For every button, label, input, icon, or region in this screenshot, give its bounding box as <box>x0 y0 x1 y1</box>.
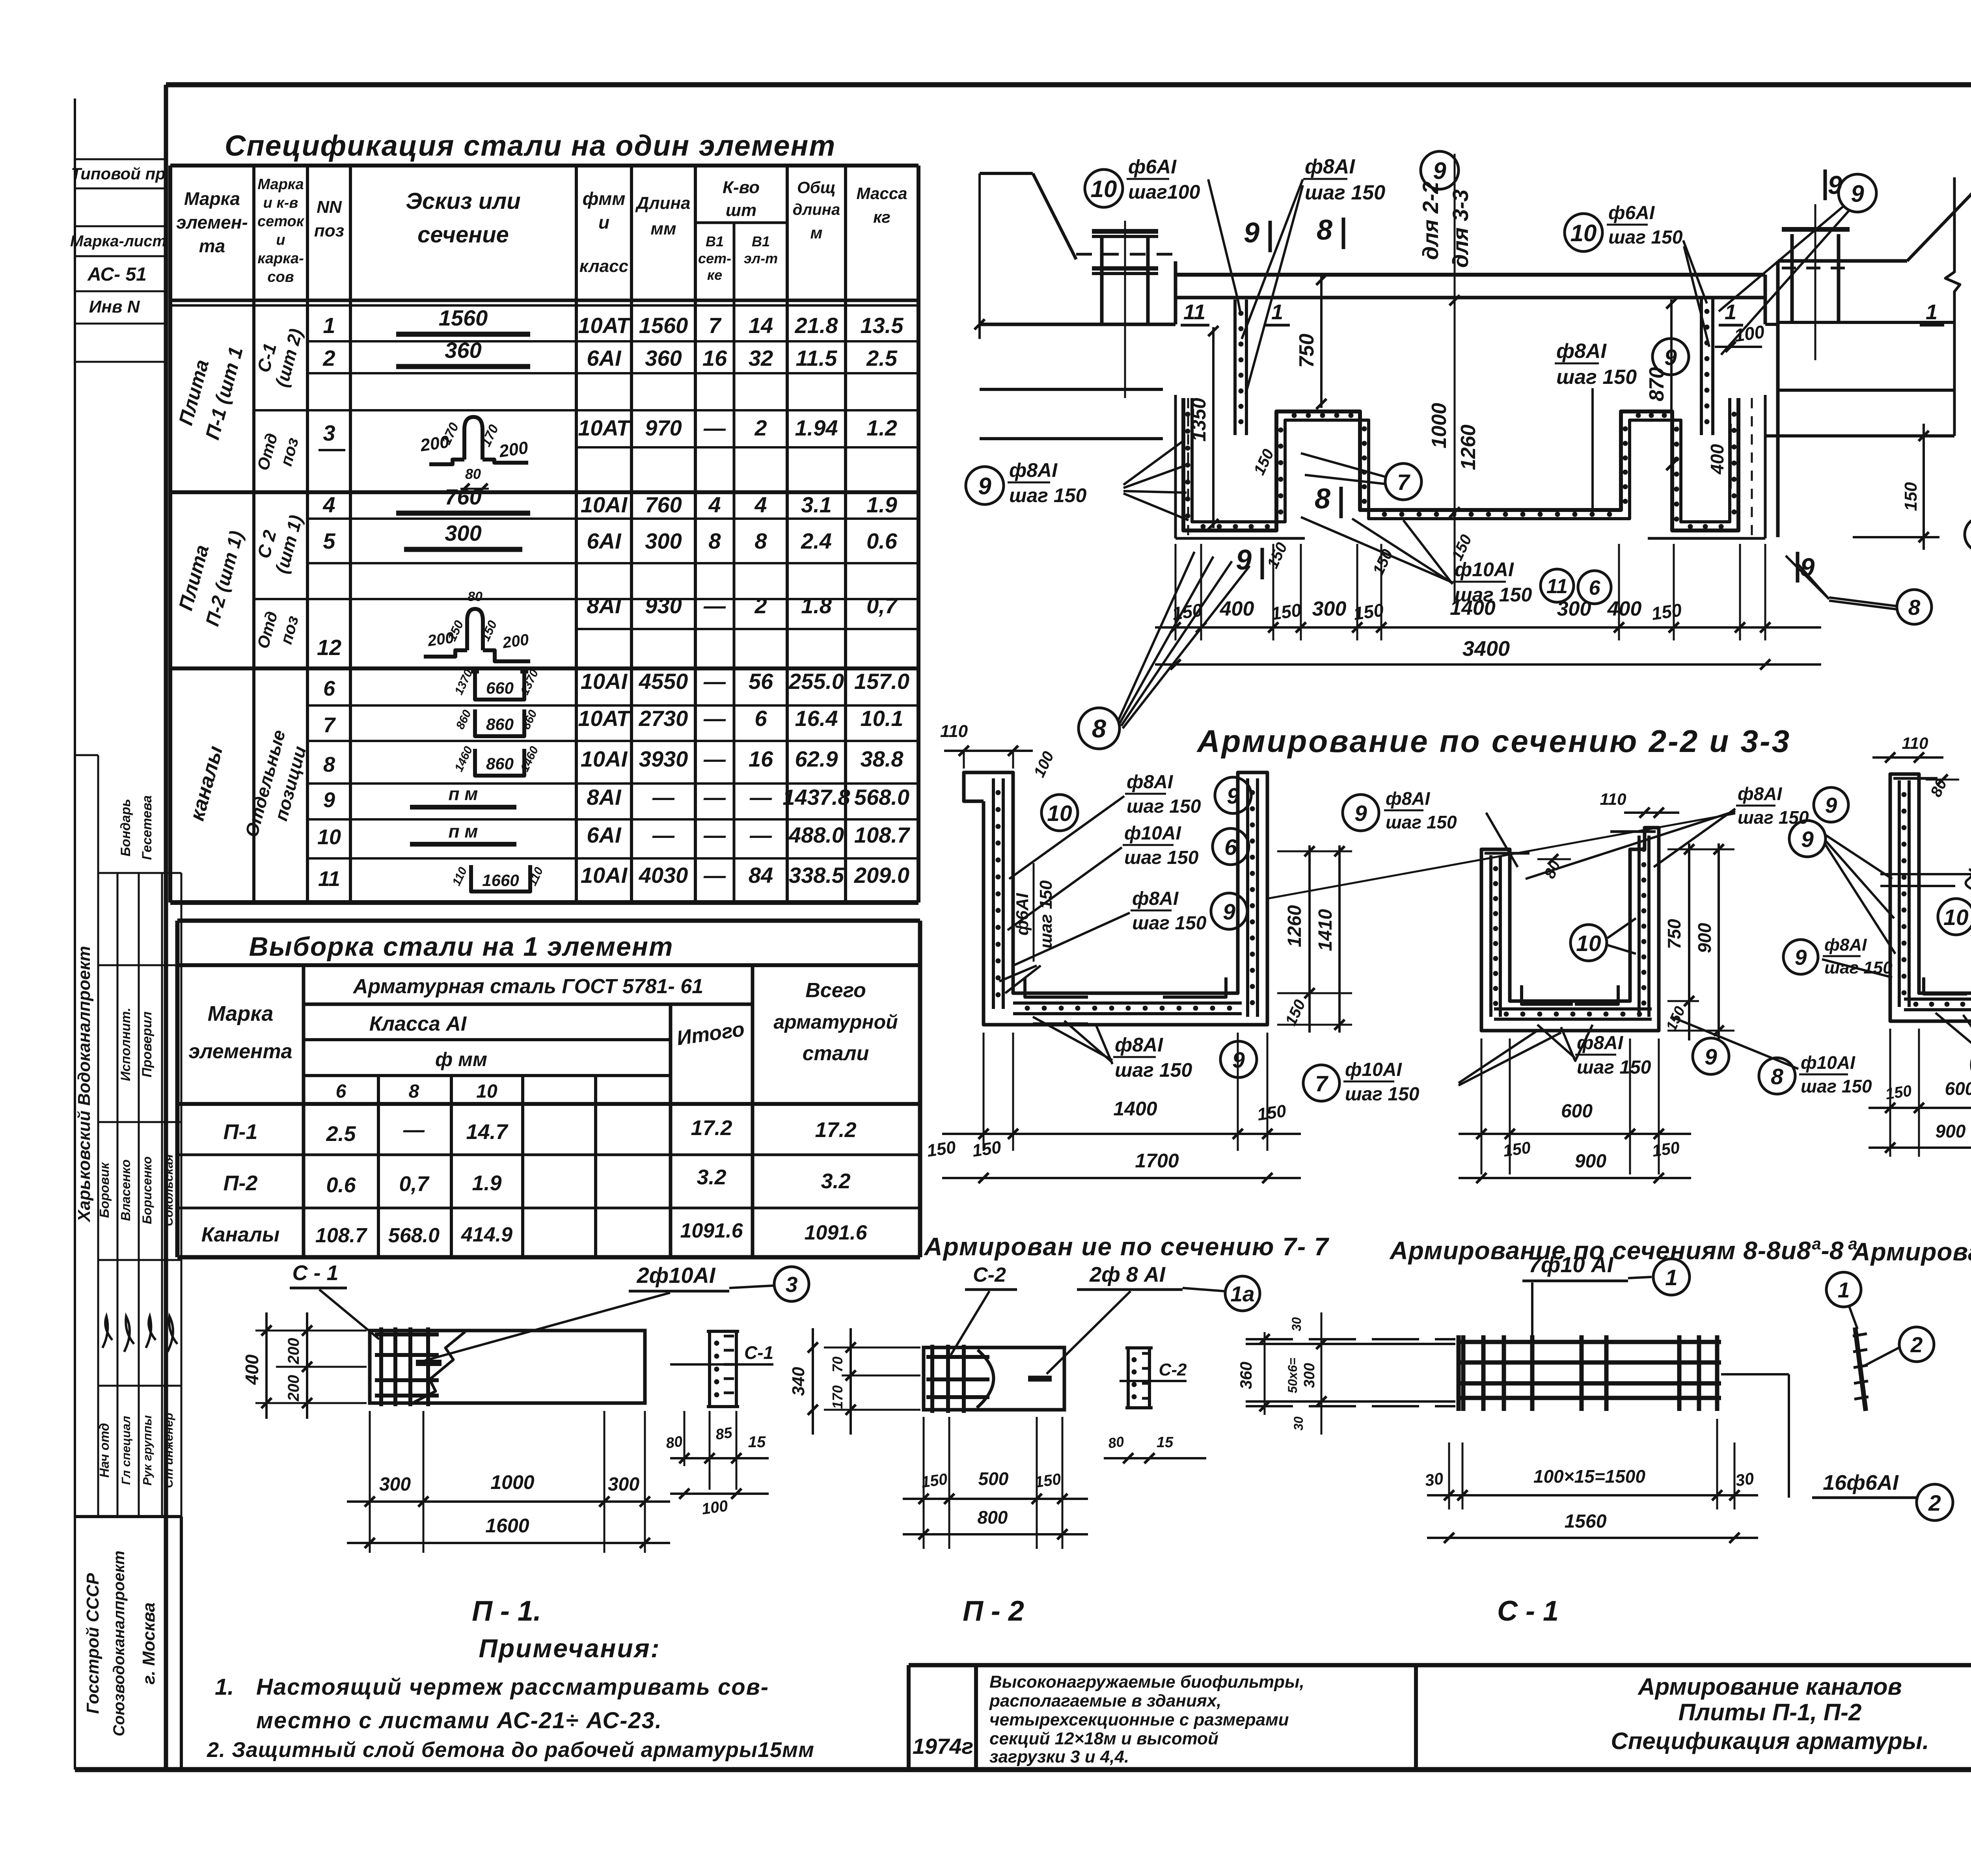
svg-text:10АТ: 10АТ <box>578 415 632 440</box>
svg-text:шаг 150: шаг 150 <box>1115 1059 1192 1081</box>
svg-text:Нач отд: Нач отд <box>97 1423 112 1478</box>
П-2 dims bottom <box>923 1417 925 1549</box>
svg-text:Спецификация арматуры.: Спецификация арматуры. <box>1611 1728 1929 1754</box>
svg-text:1410: 1410 <box>1315 909 1336 951</box>
svg-text:ф мм: ф мм <box>435 1048 487 1070</box>
svg-text:1.94: 1.94 <box>795 415 838 440</box>
svg-text:150: 150 <box>926 1137 957 1161</box>
П-1 dims left 400 200 200 <box>255 1330 367 1332</box>
svg-text:ф10АI: ф10АI <box>1801 1052 1855 1073</box>
svg-text:карка-: карка- <box>257 250 304 267</box>
top drawing: left wall hatch <box>1187 398 1189 536</box>
svg-text:3: 3 <box>786 1272 798 1297</box>
svg-text:Бондарь: Бондарь <box>118 799 133 856</box>
drawing 9-9 slab level lines with break <box>1880 873 1971 875</box>
drawing 8-8 outline <box>1481 828 1659 1031</box>
table 2 grid <box>302 965 306 1257</box>
svg-text:150: 150 <box>920 1470 948 1491</box>
svg-text:шаг 150: шаг 150 <box>1036 880 1056 948</box>
svg-text:а: а <box>1812 1234 1821 1253</box>
svg-text:10: 10 <box>476 1081 497 1102</box>
svg-text:1350: 1350 <box>1188 398 1210 441</box>
svg-text:150: 150 <box>1901 482 1921 511</box>
svg-text:300: 300 <box>379 1474 411 1495</box>
svg-text:414.9: 414.9 <box>461 1223 512 1246</box>
svg-text:ф6АI: ф6АI <box>1608 203 1655 223</box>
drawing 8-8 corner L-bars <box>1522 985 1573 1004</box>
svg-text:10АІ: 10АІ <box>581 746 628 771</box>
drawing 8-8 label 8 ф10АI bottom right <box>1759 1058 1795 1094</box>
svg-text:Класса АІ: Класса АІ <box>369 1012 467 1035</box>
bottom stamp box Госстрой СССР <box>75 1515 181 1518</box>
С-1 extension lines left <box>1246 1338 1455 1340</box>
svg-text:15: 15 <box>1157 1434 1174 1451</box>
drawing 7-7 corner L-bars <box>1025 977 1088 997</box>
svg-text:9: 9 <box>978 473 991 499</box>
svg-text:-8: -8 <box>1821 1236 1844 1265</box>
svg-text:870: 870 <box>1645 367 1668 402</box>
svg-text:255.0: 255.0 <box>788 669 844 694</box>
svg-text:8АІ: 8АІ <box>587 785 622 810</box>
П-1 mesh jag cut <box>414 1332 465 1402</box>
svg-text:шаг 150: шаг 150 <box>1345 1084 1420 1105</box>
svg-text:1.8: 1.8 <box>801 593 832 618</box>
svg-text:1: 1 <box>1926 300 1937 324</box>
svg-text:11: 11 <box>318 867 340 891</box>
svg-text:110: 110 <box>1600 790 1626 808</box>
svg-text:400: 400 <box>242 1354 262 1385</box>
svg-text:56: 56 <box>749 669 773 694</box>
top drawing: left break diagonal <box>980 172 1033 175</box>
svg-text:11: 11 <box>1546 575 1568 598</box>
svg-text:ф8АI: ф8АI <box>1305 155 1355 178</box>
svg-text:9: 9 <box>1851 181 1864 207</box>
svg-text:200: 200 <box>501 631 530 652</box>
svg-text:1.9: 1.9 <box>866 492 897 517</box>
svg-text:местно с листами АС-21÷ АС-: местно с листами АС-21÷ АС-23. <box>256 1708 662 1733</box>
svg-text:300: 300 <box>1301 1363 1318 1388</box>
svg-text:6: 6 <box>336 1081 347 1102</box>
left column stamp rows <box>75 158 166 160</box>
svg-text:10АІ: 10АІ <box>581 863 628 888</box>
svg-text:13.5: 13.5 <box>861 313 904 338</box>
svg-text:760: 760 <box>645 492 682 517</box>
drawing 8-8 label 10 circle <box>1570 925 1607 961</box>
svg-text:—: — <box>703 706 726 731</box>
svg-text:—: — <box>749 785 772 810</box>
top drawing: main slab bottom line <box>1176 296 1765 300</box>
top drawing: stepped channel mesh inner line <box>1192 398 1730 522</box>
svg-text:1560: 1560 <box>1565 1511 1607 1532</box>
svg-text:200: 200 <box>285 1338 302 1365</box>
svg-text:ф8АI: ф8АI <box>1738 784 1783 804</box>
svg-text:шаг 150: шаг 150 <box>1132 913 1207 934</box>
svg-text:660: 660 <box>486 679 514 697</box>
svg-text:NN: NN <box>317 197 342 217</box>
svg-text:ф8АI: ф8АI <box>1556 340 1607 363</box>
svg-text:1600: 1600 <box>485 1515 529 1537</box>
svg-text:Власенко: Власенко <box>118 1159 133 1221</box>
svg-text:9: 9 <box>1795 945 1807 970</box>
svg-text:150: 150 <box>1270 599 1303 624</box>
С-1 side piece with circles 1 2 <box>1855 1327 1866 1411</box>
svg-text:ф8АI: ф8АI <box>1132 888 1179 909</box>
П-1 beam outline <box>370 1331 645 1403</box>
svg-text:170: 170 <box>829 1385 846 1409</box>
svg-text:шаг 150: шаг 150 <box>1556 366 1637 389</box>
svg-text:200: 200 <box>285 1375 302 1402</box>
svg-text:Эскиз или: Эскиз или <box>406 188 520 214</box>
svg-text:300: 300 <box>1557 597 1591 620</box>
svg-text:—: — <box>749 823 772 847</box>
top drawing: bottom dim line row 1 <box>1155 626 1821 629</box>
drawing 7-7 dim 110 top <box>963 751 965 769</box>
table 1 sub column К-во шт <box>733 223 736 903</box>
drawing 9-9 outline <box>1890 774 1971 1021</box>
svg-text:9: 9 <box>1227 784 1239 809</box>
svg-text:900: 900 <box>1936 1121 1966 1141</box>
svg-text:кг: кг <box>873 208 890 226</box>
svg-text:500: 500 <box>978 1468 1009 1489</box>
svg-text:Типовой пр: Типовой пр <box>71 164 166 183</box>
П-1 anchor dash <box>416 1360 442 1366</box>
svg-text:9: 9 <box>1828 170 1842 199</box>
svg-text:400: 400 <box>1607 597 1642 620</box>
П-2 anchor dash <box>1028 1376 1052 1382</box>
svg-text:Плиты П-1, П-2: Плиты П-1, П-2 <box>1679 1699 1862 1725</box>
svg-text:10: 10 <box>1570 220 1597 246</box>
svg-text:4030: 4030 <box>639 863 688 888</box>
С-1 dims bottom <box>1448 1442 1450 1509</box>
svg-text:8: 8 <box>708 529 721 553</box>
svg-text:арматурной: арматурной <box>773 1011 898 1033</box>
svg-text:10АТ: 10АТ <box>578 706 632 731</box>
drawing 9-9 top hooks <box>1893 777 1937 780</box>
svg-text:0.6: 0.6 <box>866 529 898 553</box>
svg-text:Борисенко: Борисенко <box>140 1156 154 1224</box>
svg-text:200: 200 <box>497 438 529 461</box>
svg-text:6: 6 <box>323 677 335 700</box>
П-1 section piece dims <box>684 1411 686 1466</box>
svg-text:П - 1.: П - 1. <box>472 1595 541 1627</box>
svg-text:1437.8: 1437.8 <box>782 785 850 810</box>
svg-text:9: 9 <box>1354 801 1367 826</box>
svg-text:10.1: 10.1 <box>861 706 904 731</box>
table 1 outer border <box>170 164 918 167</box>
svg-text:П-1: П-1 <box>224 1120 258 1144</box>
svg-text:Харьковский Водоканалпроект: Харьковский Водоканалпроект <box>75 946 94 1223</box>
svg-text:15: 15 <box>748 1433 766 1451</box>
svg-text:1: 1 <box>323 313 335 338</box>
svg-text:16ф6АI: 16ф6АI <box>1823 1471 1899 1494</box>
svg-text:ф8АI: ф8АI <box>1127 772 1174 793</box>
С-1 mesh grid <box>1457 1340 1721 1344</box>
drawing 8-8 mesh bottom <box>1494 1007 1652 1011</box>
svg-text:Арматурная сталь ГОСТ 5781- 6: Арматурная сталь ГОСТ 5781- 61 <box>352 975 703 998</box>
svg-text:2ф 8 АI: 2ф 8 АI <box>1089 1263 1166 1286</box>
svg-text:1560: 1560 <box>639 313 688 338</box>
svg-text:2.4: 2.4 <box>801 529 832 553</box>
svg-text:360: 360 <box>445 338 481 363</box>
svg-text:и: и <box>276 232 285 248</box>
svg-text:80: 80 <box>665 1433 684 1452</box>
svg-text:338.5: 338.5 <box>789 863 844 888</box>
svg-text:Инв N: Инв N <box>89 297 140 316</box>
svg-text:70: 70 <box>829 1357 846 1372</box>
svg-text:6: 6 <box>1224 835 1237 860</box>
svg-text:Общ: Общ <box>797 178 836 197</box>
svg-text:мм: мм <box>650 219 676 238</box>
svg-text:П - 2: П - 2 <box>963 1595 1024 1627</box>
svg-text:Гесетева: Гесетева <box>140 795 155 860</box>
drawing 8-8 top hooks <box>1485 852 1529 855</box>
svg-text:10АІ: 10АІ <box>581 492 628 517</box>
svg-text:эл-т: эл-т <box>744 250 778 266</box>
svg-text:ф8АI: ф8АI <box>1115 1034 1163 1056</box>
svg-text:32: 32 <box>749 346 773 370</box>
svg-text:Высоконагружаемые биофильтры,: Высоконагружаемые биофильтры, <box>989 1672 1304 1692</box>
svg-text:7: 7 <box>708 313 722 338</box>
svg-text:16: 16 <box>749 746 773 771</box>
table 1 column lines <box>252 166 255 903</box>
svg-text:3400: 3400 <box>1462 637 1510 661</box>
drawing 7-7 dims right 1260 1410 <box>1277 851 1352 852</box>
svg-text:6: 6 <box>1589 577 1601 599</box>
drawing 7-7 mesh right wall <box>1246 778 1249 1017</box>
svg-text:7: 7 <box>1397 470 1410 495</box>
svg-text:11: 11 <box>1183 300 1205 324</box>
svg-text:340: 340 <box>789 1367 808 1396</box>
title block outline <box>909 1663 1971 1668</box>
svg-text:6: 6 <box>754 706 767 731</box>
svg-text:38.8: 38.8 <box>861 746 904 771</box>
drawing 9-9 dim 110 80 <box>1872 756 1943 759</box>
svg-text:загрузки 3 и 4,4.: загрузки 3 и 4,4. <box>989 1747 1129 1766</box>
svg-text:Союзводоканалпроект: Союзводоканалпроект <box>110 1550 128 1736</box>
svg-text:3930: 3930 <box>639 746 688 771</box>
svg-text:Сокольская: Сокольская <box>162 1154 175 1226</box>
svg-text:В1: В1 <box>752 233 770 249</box>
svg-text:150: 150 <box>1502 1138 1532 1160</box>
svg-text:930: 930 <box>645 593 682 618</box>
svg-text:750: 750 <box>1295 334 1318 368</box>
svg-text:300: 300 <box>445 521 481 545</box>
svg-text:2: 2 <box>322 346 335 370</box>
label 7 circle <box>1385 463 1421 500</box>
label 10 ф6АI шаг150 top right <box>1565 214 1602 251</box>
svg-text:50х6=: 50х6= <box>1285 1358 1300 1393</box>
svg-text:12: 12 <box>317 635 341 660</box>
svg-text:1: 1 <box>1838 1278 1850 1302</box>
svg-text:3.1: 3.1 <box>801 492 832 517</box>
svg-text:С-1: С-1 <box>744 1342 773 1363</box>
svg-text:В1: В1 <box>706 233 724 249</box>
svg-text:10: 10 <box>1047 801 1072 826</box>
svg-text:11.5: 11.5 <box>796 346 838 370</box>
top drawing: main slab top line <box>1176 273 1765 277</box>
svg-text:элемента: элемента <box>188 1040 292 1063</box>
svg-text:1а: 1а <box>1230 1282 1254 1306</box>
svg-text:С-2: С-2 <box>973 1264 1006 1286</box>
label 8 bottom left <box>1079 708 1120 749</box>
svg-text:30: 30 <box>1291 1416 1306 1431</box>
svg-text:сов: сов <box>267 269 294 285</box>
svg-text:860: 860 <box>486 715 514 733</box>
svg-text:8: 8 <box>323 753 335 776</box>
svg-text:1400: 1400 <box>1450 597 1496 620</box>
svg-text:С-2: С-2 <box>1159 1360 1187 1379</box>
svg-text:1400: 1400 <box>1113 1098 1157 1120</box>
svg-text:Армирован ие по сечению 7- 7: Армирован ие по сечению 7- 7 <box>923 1232 1329 1261</box>
top drawing: right pipe with flanges <box>1790 234 1794 322</box>
svg-text:9: 9 <box>1433 158 1446 184</box>
svg-text:1260: 1260 <box>1457 424 1480 470</box>
drawing 7-7 outline <box>964 772 1267 1025</box>
drawing 9-9 mesh bottom <box>1904 998 1971 1001</box>
svg-text:860: 860 <box>486 754 514 773</box>
drawing 8-8 dims right 750 900 <box>1667 849 1734 851</box>
svg-text:Марка-лист: Марка-лист <box>70 233 166 250</box>
svg-text:84: 84 <box>749 863 773 888</box>
П-1 mesh grid <box>379 1327 383 1406</box>
svg-text:9: 9 <box>323 788 335 812</box>
top drawing: mesh dots along channel <box>1185 412 1190 417</box>
top drawing: vertical dims 750 1350 1000 1260 870 <box>1320 275 1323 408</box>
svg-text:ке: ке <box>707 267 722 283</box>
drawing 9-9 label 10 circle <box>1938 899 1971 935</box>
svg-text:360: 360 <box>645 346 682 370</box>
svg-text:Выборка стали на 1 элемент: Выборка стали на 1 элемент <box>249 932 674 962</box>
top drawing: left pipe with flanges <box>1100 236 1104 324</box>
svg-text:АС- 51: АС- 51 <box>87 264 147 285</box>
svg-text:стали: стали <box>803 1042 869 1065</box>
sheet outer left border line <box>74 99 76 1770</box>
П-2 beam outline <box>924 1347 1064 1410</box>
svg-text:Марка: Марка <box>208 1002 274 1025</box>
svg-text:62.9: 62.9 <box>795 746 838 771</box>
svg-text:фмм: фмм <box>583 188 626 209</box>
svg-text:400: 400 <box>1220 597 1254 620</box>
svg-text:970: 970 <box>645 415 682 440</box>
П-1 section piece С-1 <box>708 1331 711 1407</box>
svg-text:8: 8 <box>1771 1064 1783 1089</box>
drawing 9-9 label 9 left with fan <box>1789 821 1826 857</box>
svg-text:157.0: 157.0 <box>854 669 909 694</box>
svg-text:209.0: 209.0 <box>854 863 909 888</box>
svg-text:750: 750 <box>1664 919 1684 949</box>
svg-text:4: 4 <box>754 492 767 517</box>
svg-text:Проверил: Проверил <box>140 1011 155 1077</box>
svg-text:8: 8 <box>1908 595 1921 620</box>
svg-text:9: 9 <box>1825 793 1837 817</box>
svg-text:568.0: 568.0 <box>388 1224 440 1247</box>
signature block grid <box>75 754 98 756</box>
top drawing: left floor slab lines <box>980 323 1176 326</box>
svg-text:85: 85 <box>714 1424 734 1443</box>
svg-text:2730: 2730 <box>639 706 688 731</box>
svg-text:Армирование по сечению 99: Армирование по сечению 99 <box>1851 1238 1971 1266</box>
svg-text:150: 150 <box>1256 1101 1287 1124</box>
svg-text:—: — <box>703 593 726 618</box>
svg-text:800: 800 <box>978 1507 1008 1528</box>
svg-text:ф8АI: ф8АI <box>1824 935 1867 955</box>
drawing 8-8 label 9 ф8АI left <box>1343 795 1379 831</box>
svg-text:8: 8 <box>754 529 767 553</box>
svg-text:80: 80 <box>468 589 483 604</box>
top drawing: dim 100 near right mesh <box>1715 346 1762 348</box>
svg-text:1660: 1660 <box>482 871 519 890</box>
svg-text:2.5: 2.5 <box>326 1122 356 1146</box>
svg-text:30: 30 <box>1424 1469 1445 1490</box>
svg-text:9: 9 <box>1236 544 1252 576</box>
svg-text:1: 1 <box>1271 300 1283 324</box>
svg-text:760: 760 <box>445 484 481 509</box>
svg-text:Госстрой СССР: Госстрой СССР <box>83 1573 102 1714</box>
svg-text:г. Москва: г. Москва <box>139 1602 158 1684</box>
С-1 right leader to 16ф6АI <box>1721 1373 1789 1375</box>
svg-text:2.5: 2.5 <box>866 346 898 370</box>
top drawing: embedded vertical mesh left (pos 1) <box>1233 300 1237 435</box>
svg-text:для 2-2: для 2-2 <box>1418 182 1443 260</box>
svg-text:16.4: 16.4 <box>795 706 838 731</box>
top drawing: embedded vertical mesh right (pos 1) <box>1700 298 1703 435</box>
svg-text:30: 30 <box>1289 1317 1304 1331</box>
svg-text:1091.6: 1091.6 <box>680 1219 743 1242</box>
svg-text:—: — <box>703 746 726 771</box>
svg-text:17.2: 17.2 <box>815 1118 856 1142</box>
svg-text:Армирование каналов: Армирование каналов <box>1637 1673 1902 1700</box>
drawing 8-8 dims bottom <box>1481 1038 1483 1174</box>
svg-text:Длина: Длина <box>635 194 690 213</box>
svg-text:6АІ: 6АІ <box>587 823 622 847</box>
svg-text:14.7: 14.7 <box>466 1120 509 1144</box>
svg-text:900: 900 <box>1575 1151 1606 1172</box>
svg-text:Масса: Масса <box>857 184 907 203</box>
svg-text:П-2: П-2 <box>224 1171 258 1195</box>
svg-text:Армирование по сечению 2-2: Армирование по сечению 2-2 и 3-3 <box>1196 724 1791 759</box>
svg-text:шаг 150: шаг 150 <box>1801 1076 1872 1096</box>
svg-text:располагаемые в зданиях,: располагаемые в зданиях, <box>989 1691 1221 1710</box>
svg-text:100: 100 <box>1733 321 1766 346</box>
svg-text:1091.6: 1091.6 <box>804 1221 867 1244</box>
svg-text:ф10АI: ф10АI <box>1124 823 1182 844</box>
svg-text:7: 7 <box>323 713 336 737</box>
svg-text:Гл специал: Гл специал <box>119 1416 133 1485</box>
svg-text:600: 600 <box>1945 1078 1971 1099</box>
svg-text:шаг 150: шаг 150 <box>1386 812 1457 832</box>
svg-text:14: 14 <box>749 313 773 338</box>
svg-text:568.0: 568.0 <box>854 785 909 810</box>
label 10 ф6АI шаг100 top left <box>1085 169 1123 207</box>
svg-text:и: и <box>598 212 609 233</box>
svg-text:0,7: 0,7 <box>399 1172 430 1196</box>
svg-text:1700: 1700 <box>1135 1150 1179 1172</box>
svg-text:108.7: 108.7 <box>315 1224 367 1247</box>
svg-text:длина: длина <box>793 201 840 218</box>
svg-text:100×15=1500: 100×15=1500 <box>1533 1466 1645 1487</box>
svg-text:2: 2 <box>754 593 767 618</box>
svg-text:С - 1: С - 1 <box>292 1261 338 1285</box>
signature squiggles <box>102 1316 112 1348</box>
svg-text:7: 7 <box>1315 1071 1328 1096</box>
svg-text:шаг 150: шаг 150 <box>1124 847 1199 868</box>
svg-text:1.: 1. <box>215 1674 234 1700</box>
svg-text:17.2: 17.2 <box>691 1116 732 1140</box>
svg-text:10: 10 <box>317 825 341 849</box>
svg-text:8: 8 <box>409 1081 419 1102</box>
svg-text:8: 8 <box>1092 714 1107 743</box>
svg-text:Ст инженер: Ст инженер <box>162 1413 175 1488</box>
